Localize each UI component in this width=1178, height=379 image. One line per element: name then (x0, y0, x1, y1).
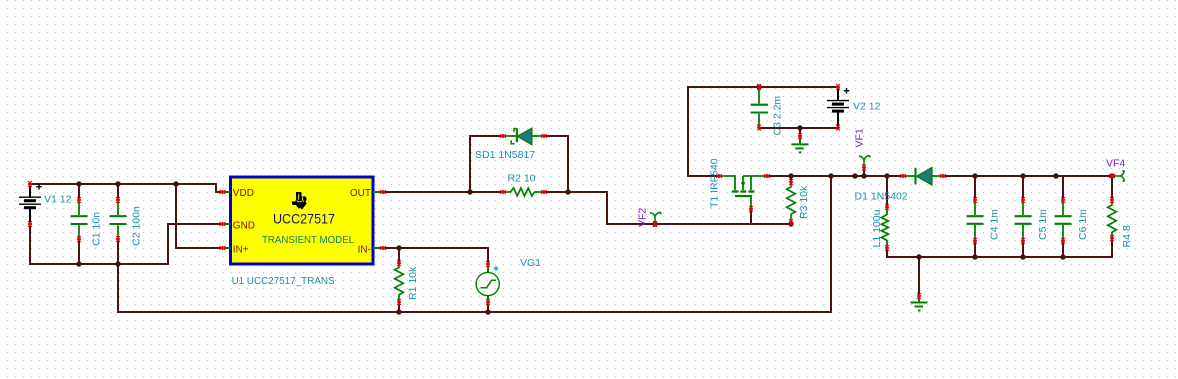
terminal x (79,239) (77, 236, 81, 242)
junction (791,224) (788, 221, 793, 226)
svg-text:C5 1m: C5 1m (1037, 209, 1049, 240)
wire gate row to R3 bottom (751, 223, 791, 225)
terminal x (864,167.5) (862, 165, 866, 171)
wire V2 bottom row (759, 127, 838, 129)
wire C2 leg down to bottom bus (117, 264, 119, 312)
probe VF2 (650, 212, 662, 223)
terminal x (383,248) (380, 246, 386, 250)
terminal x (800,136) (798, 133, 802, 139)
junction (855,176) (852, 173, 857, 178)
junction (975,257) (972, 254, 977, 259)
terminal x (222.5,248) (220, 246, 226, 250)
wire rail T1 source to D1 (767, 175, 903, 177)
svg-text:C4 1m: C4 1m (989, 209, 1001, 240)
wire R4 column (1111, 176, 1113, 257)
junction (470,192) (467, 189, 472, 194)
junction (919,257) (916, 254, 921, 259)
junction (1023,176) (1020, 173, 1025, 178)
battery V1 (19, 184, 42, 224)
battery V2 (827, 87, 849, 128)
wire L1 stubs (886, 176, 888, 257)
wire C6 stubs (1062, 176, 1064, 257)
terminal x (838,127.5) (836, 125, 840, 131)
wire bottom bus (118, 311, 831, 313)
svg-text:R1 10k: R1 10k (407, 266, 419, 300)
wire R1 top stub (398, 248, 400, 263)
wire C2 stubs (117, 184, 119, 264)
junction (791,176) (788, 173, 793, 178)
terminal x (1023,241) (1021, 238, 1025, 244)
svg-text:VF1: VF1 (853, 128, 865, 147)
terminal x (759,127.5) (757, 125, 761, 131)
wire VF1 stub (863, 168, 865, 176)
wire bottom rail left (30, 263, 168, 265)
svg-text:C1 10n: C1 10n (91, 212, 103, 246)
ic pin stubs (223, 192, 384, 248)
resistor R3 (787, 182, 796, 223)
capacitor C6 (1055, 200, 1072, 241)
terminal x (118,200) (116, 197, 120, 203)
junction (975,176) (972, 173, 977, 178)
terminal x (79,200) (77, 197, 81, 203)
junction (759,87) (756, 84, 761, 89)
terminal x (759,87) (757, 84, 761, 90)
inductor L1 (882, 207, 889, 248)
terminal x (887,207) (885, 204, 889, 210)
terminal x (503,136) (500, 134, 506, 138)
svg-text:R2 10: R2 10 (508, 173, 536, 185)
mosfet T1 IRF540 (719, 176, 767, 209)
svg-text:VF2: VF2 (637, 208, 649, 227)
probe VF4 (1113, 171, 1124, 182)
probe VF1 (859, 156, 871, 168)
terminal x (399,302) (397, 299, 401, 305)
diode D1 (903, 168, 943, 185)
terminal x (222.5,192) (220, 190, 226, 194)
svg-text:C6 1m: C6 1m (1077, 209, 1089, 240)
terminal x (975,200) (973, 197, 977, 203)
svg-text:R3 10k: R3 10k (798, 185, 810, 219)
junction (176,184) (173, 181, 178, 186)
wire R3 top stub (790, 176, 792, 182)
wire ground stub G2 (918, 257, 920, 296)
junction (800,128) (797, 125, 802, 130)
junction (1063,257) (1060, 254, 1065, 259)
svg-text:UCC27517: UCC27517 (273, 211, 335, 227)
svg-text:L1 100u: L1 100u (871, 209, 883, 247)
terminal x (1063,241) (1061, 238, 1065, 244)
junction (1112,176) (1109, 173, 1114, 178)
terminal x (791,182) (789, 179, 793, 185)
ground G1 (top loop) (792, 137, 809, 153)
wire VDD-IN+ vertical (176, 184, 223, 248)
generator VG1 plus (494, 266, 499, 271)
generator VG1 (476, 264, 499, 302)
junction (399,248) (396, 245, 401, 250)
svg-text:V2 12: V2 12 (853, 101, 881, 113)
terminal x (1112,200) (1110, 197, 1114, 203)
junction (79,264) (76, 261, 81, 266)
terminal x (1023,200) (1021, 197, 1025, 203)
terminal x (887,248) (885, 245, 889, 251)
svg-text:U1 UCC27517_TRANS: U1 UCC27517_TRANS (232, 275, 335, 287)
wire C1 stubs (78, 184, 80, 264)
terminal x (1112,238) (1110, 235, 1114, 241)
junction (79,184) (76, 181, 81, 186)
terminal x (118,239) (116, 236, 120, 242)
capacitor C2 (110, 200, 127, 239)
wire mid ground leg (830, 176, 832, 312)
terminal x (655,224) (653, 221, 657, 227)
wire top loop V2/C3 (688, 87, 838, 176)
svg-text:GND: GND (233, 221, 255, 232)
junction (118,184) (115, 181, 120, 186)
svg-text:VDD: VDD (233, 188, 254, 199)
terminal x (544,192) (541, 190, 547, 194)
terminal x (975,241) (973, 238, 977, 244)
junction (864,176) (861, 173, 866, 178)
svg-text:V1 12: V1 12 (44, 194, 72, 206)
terminal x (838,87) (836, 84, 840, 90)
terminal x (791,222) (789, 219, 793, 225)
junction (1023,257) (1020, 254, 1025, 259)
resistor R4 (1108, 200, 1117, 238)
terminal x (903,176) (900, 174, 906, 178)
resistor R1 (395, 263, 404, 302)
junction (655,224) (652, 221, 657, 226)
wire D1 right to VF4 (943, 175, 1112, 177)
wire VG1 bottom stub (487, 302, 489, 312)
ic TI logo (292, 192, 307, 210)
capacitor C1 (71, 200, 88, 239)
svg-text:D1 1N5402: D1 1N5402 (855, 191, 908, 203)
wire SD1 right leg (544, 136, 568, 192)
terminal x (488,302) (486, 299, 490, 305)
svg-text:C3 2.2m: C3 2.2m (772, 96, 784, 136)
capacitor C3 (751, 87, 769, 128)
terminal x (943,176) (940, 174, 946, 178)
junction (488,312) (485, 309, 490, 314)
terminal x (488,264) (486, 261, 490, 267)
junction (831,176) (828, 173, 833, 178)
wire top rail left (V1 to VDD jog) (30, 184, 223, 192)
terminal x (1063,200) (1061, 197, 1065, 203)
resistor R2 (503, 188, 544, 196)
wire IN- row to R1/VG1 (383, 248, 488, 264)
junction (887,176) (884, 173, 889, 178)
terminal x (30,224) (28, 221, 32, 227)
junction (399,312) (396, 309, 401, 314)
terminal x marks (28, 84, 1115, 305)
terminal x (399,263) (397, 260, 401, 266)
terminal x (919,296) (917, 293, 921, 299)
capacitor C5 (1015, 200, 1032, 241)
terminal x (383,192) (380, 190, 386, 194)
terminal x (1112,176) (1109, 174, 1115, 178)
wire C5 stubs (1022, 176, 1024, 257)
svg-text:C2 100n: C2 100n (130, 206, 142, 246)
svg-text:VF4: VF4 (1106, 158, 1125, 170)
wire SD1 left leg (470, 136, 503, 192)
junction (1056,176) (1053, 173, 1058, 178)
svg-text:VG1: VG1 (520, 257, 541, 269)
svg-text:IN-: IN- (358, 245, 371, 256)
ic U1 UCC27517 box (231, 177, 374, 264)
terminal x (767,176) (764, 174, 770, 178)
terminal x (30,184) (28, 181, 32, 187)
wire V1 bottom leg (29, 224, 31, 264)
wire C4 stubs (974, 176, 976, 257)
terminal x (222.5,224) (220, 222, 226, 226)
terminal x (503,192) (500, 190, 506, 194)
wire OUT to SD1/R2 loop (383, 192, 751, 224)
terminal x (544,136) (541, 134, 547, 138)
svg-text:T1 IRF540: T1 IRF540 (708, 158, 720, 208)
schottky diode SD1 (503, 129, 544, 144)
svg-text:OUT: OUT (350, 188, 371, 199)
terminal x (751,209) (749, 206, 753, 212)
svg-text:R4 8: R4 8 (1121, 225, 1133, 247)
wire R1 bottom stub (398, 302, 400, 312)
junction (568,192) (565, 189, 570, 194)
svg-text:IN+: IN+ (233, 245, 249, 256)
wire GND pin to left leg (168, 224, 223, 264)
wire gate vertical (750, 209, 752, 224)
capacitor C4 (967, 200, 984, 241)
ground G2 (output) (911, 296, 928, 310)
svg-text:TRANSIENT MODEL: TRANSIENT MODEL (262, 234, 354, 246)
terminal x (719,176) (716, 174, 722, 178)
junction (118,264) (115, 261, 120, 266)
wire ground stub G1 (799, 128, 801, 136)
wire output bottom rail (887, 256, 1112, 258)
svg-text:SD1 1N5817: SD1 1N5817 (475, 149, 535, 161)
